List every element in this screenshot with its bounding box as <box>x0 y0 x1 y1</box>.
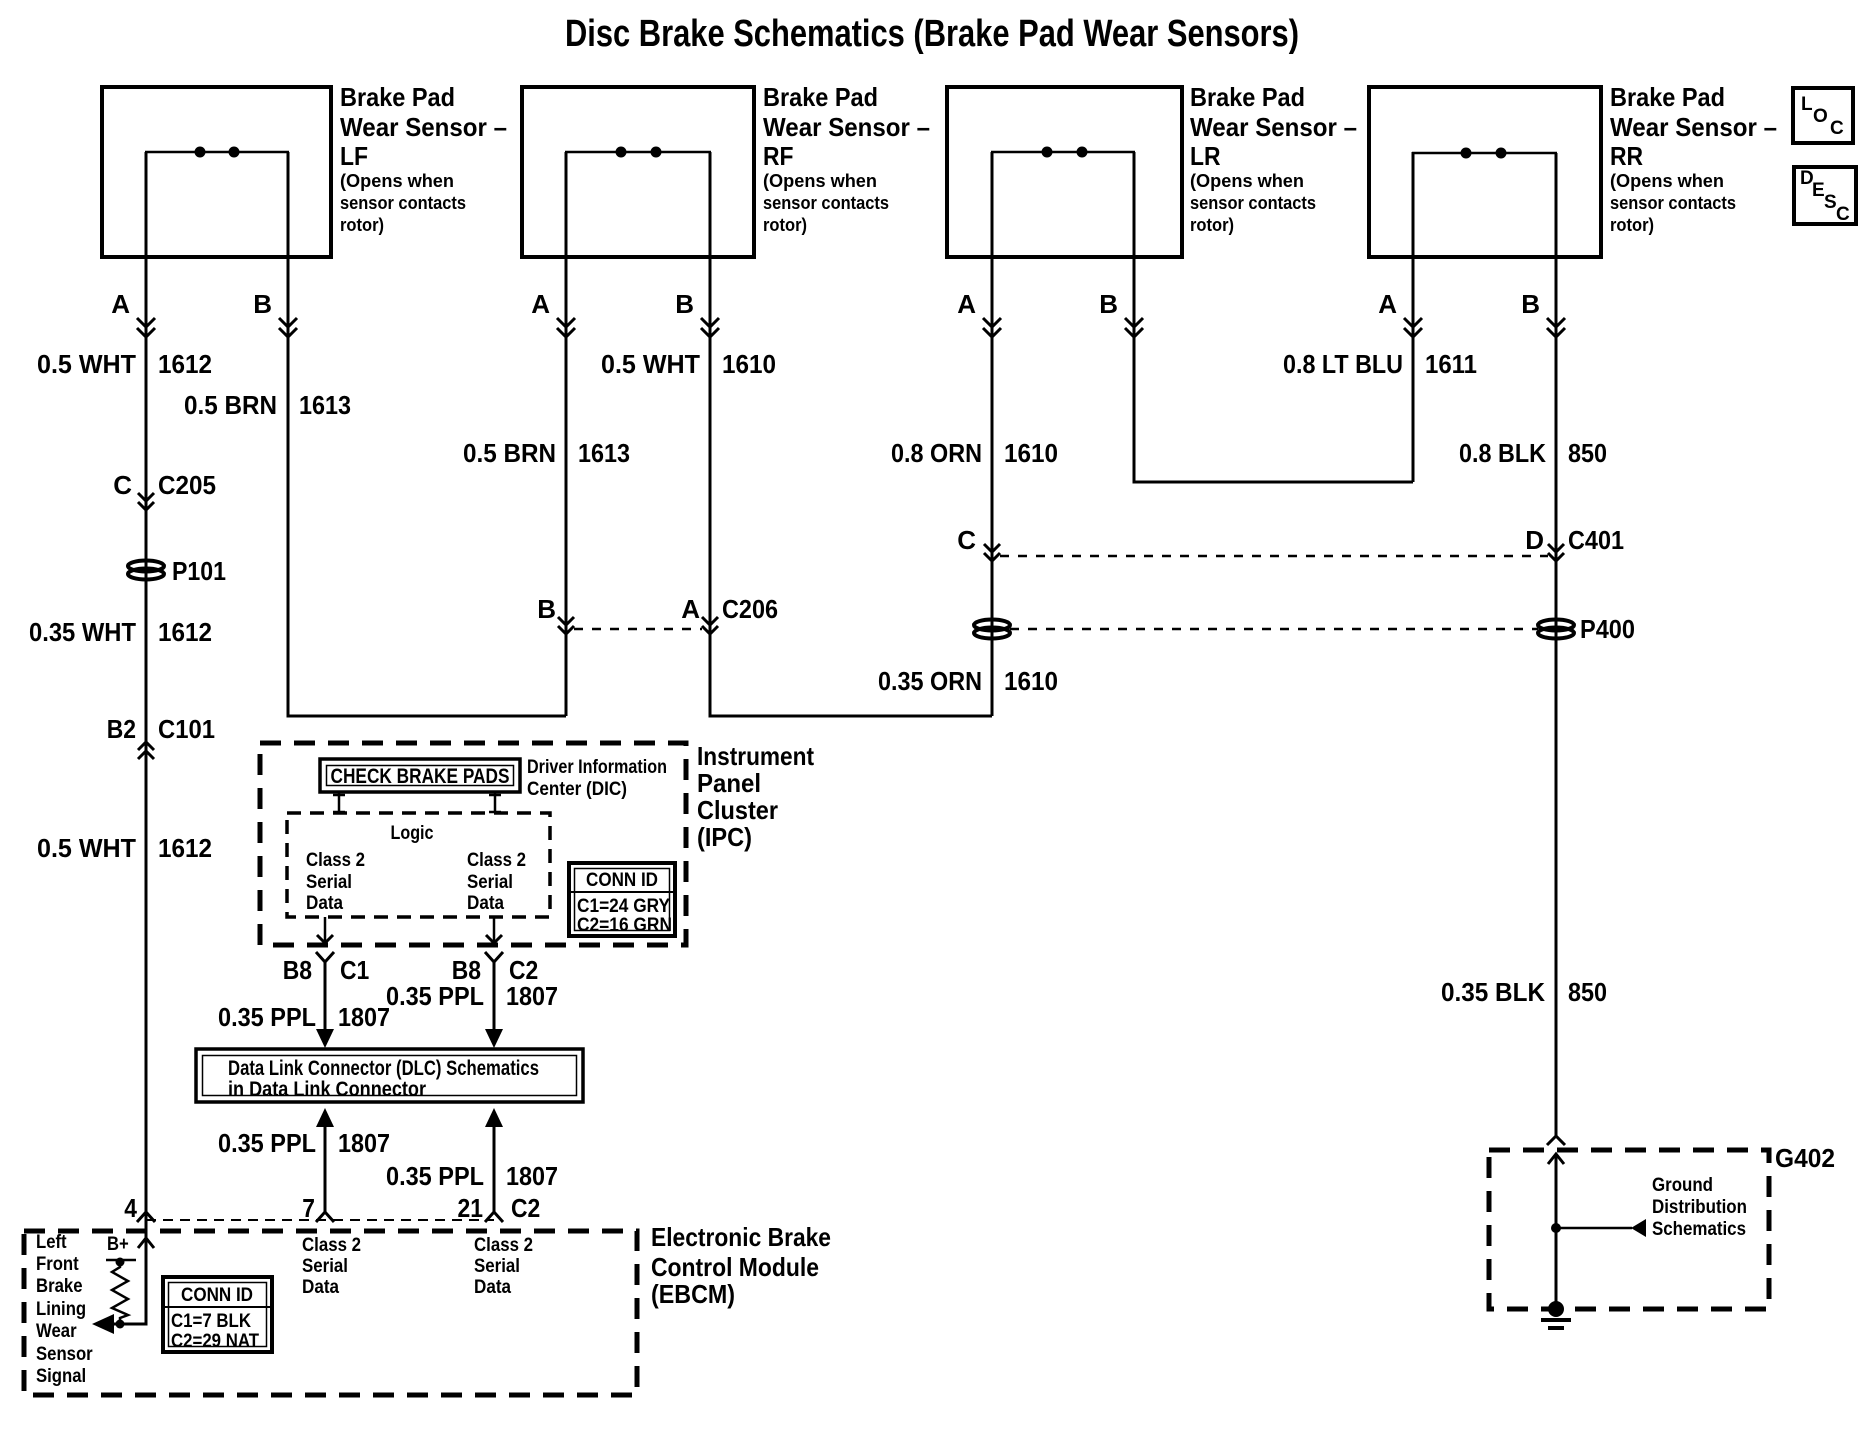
svg-text:Data: Data <box>467 893 504 914</box>
ground distribution branch <box>1551 1219 1646 1237</box>
svg-text:Schematics: Schematics <box>1652 1219 1746 1240</box>
signal continuation arrowhead <box>92 1314 114 1334</box>
svg-text:O: O <box>1813 106 1828 127</box>
svg-text:C206: C206 <box>722 594 778 624</box>
svg-text:sensor contacts: sensor contacts <box>1190 193 1316 213</box>
svg-text:Class 2: Class 2 <box>306 850 365 871</box>
RF pin A connector chevrons <box>557 318 575 337</box>
ground G402 <box>1541 1301 1571 1328</box>
svg-text:0.35 WHT: 0.35 WHT <box>29 617 136 647</box>
EBCM B+ label <box>107 1234 129 1255</box>
svg-text:Control Module: Control Module <box>651 1252 819 1282</box>
wire label 0.35 BLK 850 (RR B lower) <box>1441 977 1607 1007</box>
svg-text:Wear Sensor –: Wear Sensor – <box>1610 112 1777 142</box>
G402 entry chevron <box>1547 1136 1565 1145</box>
svg-text:Serial: Serial <box>467 872 513 893</box>
LF pin B label <box>253 289 272 319</box>
svg-text:0.5 WHT: 0.5 WHT <box>37 833 136 863</box>
svg-text:1612: 1612 <box>158 617 212 647</box>
grommet P101 <box>128 556 226 586</box>
svg-text:21: 21 <box>458 1193 484 1223</box>
LR pin A connector chevrons <box>983 318 1001 337</box>
brake pad wear sensor RF box <box>522 87 754 257</box>
svg-text:Left: Left <box>36 1232 67 1253</box>
svg-text:E: E <box>1812 180 1825 201</box>
svg-text:C2=29 NAT: C2=29 NAT <box>171 1331 259 1352</box>
wire DLC to EBCM pin 21 <box>485 1108 503 1212</box>
CHECK BRAKE PADS indicator box <box>320 759 520 792</box>
EBCM CONN ID table <box>163 1277 272 1352</box>
wire LR pin A (ORN 1610) <box>991 152 994 716</box>
EBCM class 2 serial data (pin 21) <box>474 1235 533 1298</box>
svg-text:C: C <box>957 525 976 555</box>
svg-text:Brake Pad: Brake Pad <box>1610 82 1725 112</box>
svg-text:sensor contacts: sensor contacts <box>1610 193 1736 213</box>
svg-text:(Opens when: (Opens when <box>340 171 454 191</box>
svg-text:L: L <box>1801 94 1813 115</box>
EBCM pin header dashed line <box>146 1219 494 1221</box>
svg-text:A: A <box>531 289 550 319</box>
connector C205 pin C <box>113 470 216 510</box>
LR pin B label <box>1099 289 1118 319</box>
wire label 0.5 WHT 1610 (RF B) <box>601 349 776 379</box>
svg-text:Serial: Serial <box>306 872 352 893</box>
splice pass-through P400 left grommet (on LR A wire) <box>974 620 1010 639</box>
RF pin B connector chevrons <box>701 318 719 337</box>
svg-text:1613: 1613 <box>299 390 351 420</box>
svg-text:0.35 PPL: 0.35 PPL <box>218 1128 316 1158</box>
wire LR pin B (0.8 LT BLU 1611) <box>1134 152 1413 482</box>
svg-text:Sensor: Sensor <box>36 1344 93 1365</box>
svg-text:Distribution: Distribution <box>1652 1197 1747 1218</box>
svg-text:C101: C101 <box>158 714 215 744</box>
svg-text:Electronic Brake: Electronic Brake <box>651 1222 831 1252</box>
svg-text:Brake Pad: Brake Pad <box>1190 82 1305 112</box>
EBCM label <box>651 1222 831 1309</box>
IPC exit arrow left (to C1) <box>317 917 333 943</box>
RF sensor switch <box>565 147 711 158</box>
svg-text:Serial: Serial <box>474 1256 520 1277</box>
svg-text:850: 850 <box>1568 977 1607 1007</box>
svg-text:Ground: Ground <box>1652 1175 1713 1196</box>
wire label 0.5 WHT 1612 (LF A lower) <box>37 833 212 863</box>
EBCM pin 4 label <box>124 1193 137 1223</box>
svg-text:in Data Link Connector: in Data Link Connector <box>228 1078 426 1101</box>
EBCM pin 7 label <box>302 1193 315 1223</box>
EBCM dashed box <box>24 1231 637 1395</box>
svg-text:(Opens when: (Opens when <box>1610 171 1724 191</box>
wire label 0.8 LT BLU 1611 (RR A) <box>1283 349 1477 379</box>
svg-text:D: D <box>1525 525 1544 555</box>
svg-text:0.8 LT BLU: 0.8 LT BLU <box>1283 349 1403 379</box>
svg-text:0.5 WHT: 0.5 WHT <box>37 349 136 379</box>
svg-text:C: C <box>1830 118 1844 139</box>
svg-text:Wear Sensor –: Wear Sensor – <box>763 112 930 142</box>
IPC exit Y connector right <box>485 952 503 962</box>
connector C206 pin B <box>537 594 574 634</box>
svg-text:Class 2: Class 2 <box>302 1235 361 1256</box>
IPC dashed box <box>260 743 686 945</box>
RR sensor label <box>1610 82 1777 235</box>
svg-text:C2=16 GRN: C2=16 GRN <box>577 915 672 936</box>
stub CBP to Logic right <box>489 792 501 813</box>
svg-text:LF: LF <box>340 141 368 171</box>
svg-text:Wear: Wear <box>36 1321 77 1342</box>
svg-text:1610: 1610 <box>1004 666 1058 696</box>
svg-text:B+: B+ <box>107 1234 129 1255</box>
LOC box <box>1793 88 1853 143</box>
svg-text:Data Link Connector (DLC) Sche: Data Link Connector (DLC) Schematics <box>228 1057 539 1080</box>
wire label 0.35 PPL 1807 (pin 21 wire) <box>386 1161 558 1191</box>
IPC exit Y connector left <box>316 952 334 962</box>
LF pin B connector chevrons <box>279 318 297 337</box>
connector C401 pin C <box>957 525 1000 561</box>
connector C401 dashed link <box>1000 555 1548 558</box>
EBCM class 2 serial data (pin 7) <box>302 1235 361 1298</box>
svg-text:C1: C1 <box>340 955 369 985</box>
IPC exit arrow right (to C2) <box>486 917 502 943</box>
svg-text:Brake Pad: Brake Pad <box>763 82 878 112</box>
EBCM pin 4 entry chevron <box>137 1212 155 1222</box>
svg-text:CONN ID: CONN ID <box>181 1285 253 1306</box>
LF pin A connector chevrons <box>137 318 155 337</box>
RR pin A connector chevrons <box>1404 318 1422 337</box>
svg-text:C205: C205 <box>158 470 216 500</box>
title <box>565 13 1299 55</box>
svg-text:CHECK BRAKE PADS: CHECK BRAKE PADS <box>331 765 510 788</box>
svg-text:S: S <box>1824 192 1837 213</box>
LF sensor label <box>340 82 507 235</box>
svg-text:0.35 PPL: 0.35 PPL <box>386 981 484 1011</box>
svg-text:B8: B8 <box>283 955 312 985</box>
svg-text:(EBCM): (EBCM) <box>651 1279 735 1309</box>
wire IPC C1 to DLC <box>316 962 334 1048</box>
svg-text:0.8 ORN: 0.8 ORN <box>891 438 982 468</box>
EBCM pin 7 entry chevron <box>316 1212 334 1222</box>
LF pin A label <box>111 289 130 319</box>
DIC label <box>527 757 667 800</box>
B+ node dot <box>116 1258 125 1267</box>
wire RR pin B (BLK 850) <box>1555 153 1558 1136</box>
brake pad wear sensor RR box <box>1369 87 1601 257</box>
IPC pin label B8 C2 <box>452 955 539 985</box>
svg-text:Logic: Logic <box>391 823 434 844</box>
connector C206 pin A <box>681 594 778 634</box>
svg-text:(Opens when: (Opens when <box>1190 171 1304 191</box>
pull-up resistor inside EBCM <box>112 1262 128 1322</box>
EBCM pin 21 entry chevron <box>485 1212 503 1222</box>
signal wire inside EBCM with up arrow <box>104 1212 154 1324</box>
svg-text:C2: C2 <box>511 1193 540 1223</box>
svg-text:Class 2: Class 2 <box>467 850 526 871</box>
svg-text:1610: 1610 <box>1004 438 1058 468</box>
svg-text:C: C <box>113 470 132 500</box>
svg-text:Wear Sensor –: Wear Sensor – <box>340 112 507 142</box>
svg-text:rotor): rotor) <box>763 215 807 235</box>
svg-text:RR: RR <box>1610 141 1643 171</box>
svg-text:rotor): rotor) <box>1190 215 1234 235</box>
svg-text:B: B <box>537 594 556 624</box>
wire label 0.8 ORN 1610 (LR A) <box>891 438 1058 468</box>
connector C401 pin D <box>1525 525 1624 561</box>
stub CBP to Logic left <box>333 792 345 813</box>
connector C206 dashed link <box>574 628 702 631</box>
svg-text:0.35 PPL: 0.35 PPL <box>386 1161 484 1191</box>
svg-text:C: C <box>1836 204 1850 225</box>
svg-text:Disc Brake Schematics (Brake P: Disc Brake Schematics (Brake Pad Wear Se… <box>565 13 1299 55</box>
svg-text:1807: 1807 <box>338 1128 390 1158</box>
svg-text:1807: 1807 <box>338 1002 390 1032</box>
svg-text:RF: RF <box>763 141 794 171</box>
EBCM pin 21 label <box>458 1193 484 1223</box>
svg-text:0.5 WHT: 0.5 WHT <box>601 349 700 379</box>
svg-text:A: A <box>111 289 130 319</box>
LR sensor switch <box>991 147 1135 158</box>
wire label 0.5 BRN 1613 (LF B) <box>184 390 351 420</box>
svg-text:A: A <box>681 594 700 624</box>
svg-text:Instrument: Instrument <box>697 741 814 771</box>
svg-text:P101: P101 <box>172 556 226 586</box>
wire label 0.8 BLK 850 (RR B) <box>1459 438 1607 468</box>
svg-text:1610: 1610 <box>722 349 776 379</box>
P400 right grommet (on RR B wire) <box>1538 614 1635 644</box>
EBCM connector C2 label <box>511 1193 540 1223</box>
svg-text:Brake: Brake <box>36 1276 83 1297</box>
svg-text:Data: Data <box>306 893 343 914</box>
svg-text:850: 850 <box>1568 438 1607 468</box>
RR sensor switch <box>1412 148 1557 159</box>
wire label 0.5 WHT 1612 (LF A) <box>37 349 212 379</box>
wire LF pin A (0.5 WHT 1612) <box>145 152 148 1212</box>
svg-text:1611: 1611 <box>1425 349 1477 379</box>
RF pin B label <box>675 289 694 319</box>
B+ supply bar <box>106 1259 136 1262</box>
connector C101 pin B2 <box>107 714 215 759</box>
svg-text:1612: 1612 <box>158 833 212 863</box>
svg-text:7: 7 <box>302 1193 315 1223</box>
ground distribution schematics label <box>1652 1175 1747 1240</box>
svg-text:Class 2: Class 2 <box>474 1235 533 1256</box>
svg-text:0.5 BRN: 0.5 BRN <box>463 438 556 468</box>
svg-text:B: B <box>1099 289 1118 319</box>
svg-text:C401: C401 <box>1568 525 1624 555</box>
ground wire inside G402 with up arrow <box>1548 1154 1564 1309</box>
wire label 0.5 BRN 1613 (RF A) <box>463 438 630 468</box>
svg-text:(Opens when: (Opens when <box>763 171 877 191</box>
wire label 0.35 ORN 1610 (LR A below) <box>878 666 1058 696</box>
svg-text:B: B <box>675 289 694 319</box>
wire label 0.35 PPL 1807 (C1 wire upper) <box>218 1002 390 1032</box>
svg-text:Serial: Serial <box>302 1256 348 1277</box>
svg-text:1612: 1612 <box>158 349 212 379</box>
RF pin A label <box>531 289 550 319</box>
brake pad wear sensor LR box <box>947 87 1182 257</box>
svg-text:CONN ID: CONN ID <box>586 870 658 891</box>
svg-text:rotor): rotor) <box>340 215 384 235</box>
wire RF pin B (0.5 WHT 1610) <box>710 152 992 716</box>
svg-text:Panel: Panel <box>697 768 761 798</box>
svg-text:0.8 BLK: 0.8 BLK <box>1459 438 1546 468</box>
svg-text:B2: B2 <box>107 714 136 744</box>
svg-text:sensor contacts: sensor contacts <box>763 193 889 213</box>
G402 label <box>1775 1143 1835 1173</box>
svg-text:Lining: Lining <box>36 1299 86 1320</box>
IPC pin label B8 C1 <box>283 955 370 985</box>
wire label 0.35 WHT 1612 (LF A below P101) <box>29 617 212 647</box>
wire RR pin A (0.8 LT BLU 1611) <box>1412 152 1415 482</box>
IPC CONN ID table <box>569 863 675 936</box>
RR pin B connector chevrons <box>1547 318 1565 337</box>
G402 dashed box <box>1489 1150 1769 1309</box>
LR sensor label <box>1190 82 1357 235</box>
LR pin A label <box>957 289 976 319</box>
svg-text:Data: Data <box>474 1277 511 1298</box>
svg-text:0.35 ORN: 0.35 ORN <box>878 666 982 696</box>
wire label 0.35 PPL 1807 (C2 wire upper) <box>386 981 558 1011</box>
svg-text:Cluster: Cluster <box>697 795 778 825</box>
svg-text:Center (DIC): Center (DIC) <box>527 779 627 800</box>
class 2 serial data (IPC right) <box>467 850 526 914</box>
svg-text:A: A <box>957 289 976 319</box>
svg-text:0.35 BLK: 0.35 BLK <box>1441 977 1545 1007</box>
svg-text:rotor): rotor) <box>1610 215 1654 235</box>
svg-text:C1=7 BLK: C1=7 BLK <box>171 1311 251 1332</box>
wire DLC to EBCM pin 7 <box>316 1108 334 1212</box>
resistor lower node dot <box>116 1320 125 1329</box>
logic dashed box <box>287 813 550 917</box>
svg-text:G402: G402 <box>1775 1143 1835 1173</box>
svg-text:Signal: Signal <box>36 1366 86 1387</box>
svg-text:A: A <box>1378 289 1397 319</box>
svg-text:1807: 1807 <box>506 981 558 1011</box>
DLC reference box <box>196 1049 583 1102</box>
svg-text:P400: P400 <box>1580 614 1635 644</box>
RR pin B label <box>1521 289 1540 319</box>
svg-text:0.5 BRN: 0.5 BRN <box>184 390 277 420</box>
wire IPC C2 to DLC <box>485 962 503 1048</box>
wire label 0.35 PPL 1807 (pin 7 wire) <box>218 1128 390 1158</box>
svg-text:C1=24 GRY: C1=24 GRY <box>577 896 670 917</box>
DESC box <box>1794 167 1856 225</box>
svg-text:4: 4 <box>124 1193 137 1223</box>
svg-text:(IPC): (IPC) <box>697 822 752 852</box>
svg-text:Driver Information: Driver Information <box>527 757 667 778</box>
wire RF pin A (0.5 BRN 1613) <box>565 152 568 716</box>
RF sensor label <box>763 82 930 235</box>
LR pin B connector chevrons <box>1125 318 1143 337</box>
class 2 serial data (IPC left) <box>306 850 365 914</box>
svg-text:sensor contacts: sensor contacts <box>340 193 466 213</box>
RR pin A label <box>1378 289 1397 319</box>
wire LF pin B (0.5 BRN 1613) <box>288 152 566 716</box>
P400 dashed link <box>1010 628 1538 631</box>
svg-text:LR: LR <box>1190 141 1221 171</box>
svg-text:Wear Sensor –: Wear Sensor – <box>1190 112 1357 142</box>
IPC label <box>697 741 814 852</box>
svg-text:Data: Data <box>302 1277 339 1298</box>
svg-text:0.35 PPL: 0.35 PPL <box>218 1002 316 1032</box>
svg-text:B: B <box>1521 289 1540 319</box>
EBCM left front brake lining wear sensor signal label <box>36 1232 93 1387</box>
LF sensor switch <box>145 147 289 158</box>
brake pad wear sensor LF box <box>102 87 331 257</box>
svg-text:B: B <box>253 289 272 319</box>
svg-text:Brake Pad: Brake Pad <box>340 82 455 112</box>
svg-text:1613: 1613 <box>578 438 630 468</box>
svg-text:1807: 1807 <box>506 1161 558 1191</box>
svg-text:Front: Front <box>36 1254 79 1275</box>
